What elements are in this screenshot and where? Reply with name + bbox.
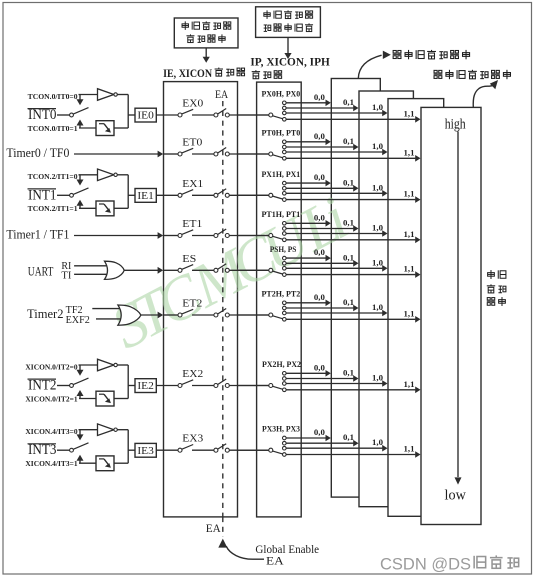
svg-text:TCON.2/IT1=0: TCON.2/IT1=0 bbox=[28, 172, 78, 181]
svg-text:low: low bbox=[445, 488, 466, 504]
svg-text:ES: ES bbox=[182, 254, 196, 265]
svg-text:PX1H, PX1: PX1H, PX1 bbox=[262, 170, 301, 179]
svg-text:EA: EA bbox=[266, 556, 284, 568]
svg-text:PX2H, PX2: PX2H, PX2 bbox=[262, 360, 301, 369]
svg-text:INT0: INT0 bbox=[28, 107, 57, 123]
svg-text:Global Enable: Global Enable bbox=[255, 544, 319, 556]
svg-text:EX3: EX3 bbox=[182, 434, 203, 445]
svg-text:0,0: 0,0 bbox=[314, 132, 325, 141]
svg-text:1,0: 1,0 bbox=[372, 303, 383, 312]
svg-text:CSDN @DS: CSDN @DS bbox=[380, 555, 471, 573]
svg-text:IP, XICON, IPH: IP, XICON, IPH bbox=[250, 57, 329, 69]
svg-text:PT2H, PT2: PT2H, PT2 bbox=[262, 290, 301, 299]
svg-text:EA: EA bbox=[215, 89, 229, 101]
svg-text:1,1: 1,1 bbox=[404, 445, 415, 454]
svg-text:TCON.0/IT0=1: TCON.0/IT0=1 bbox=[28, 124, 78, 133]
svg-text:ET0: ET0 bbox=[182, 138, 202, 149]
svg-text:1,0: 1,0 bbox=[372, 103, 383, 112]
svg-text:0,1: 0,1 bbox=[343, 137, 354, 146]
svg-text:IE2: IE2 bbox=[137, 381, 154, 392]
svg-text:0,1: 0,1 bbox=[343, 253, 354, 262]
svg-text:0,0: 0,0 bbox=[314, 213, 325, 222]
svg-text:1,0: 1,0 bbox=[372, 183, 383, 192]
svg-text:Timer1 / TF1: Timer1 / TF1 bbox=[6, 228, 69, 242]
svg-text:Timer0 / TF0: Timer0 / TF0 bbox=[6, 146, 69, 160]
svg-text:1,1: 1,1 bbox=[404, 148, 415, 157]
svg-text:0,1: 0,1 bbox=[343, 98, 354, 107]
svg-text:Timer2: Timer2 bbox=[27, 307, 64, 321]
svg-text:0,0: 0,0 bbox=[314, 428, 325, 437]
svg-text:EX0: EX0 bbox=[182, 99, 203, 110]
svg-text:TCON.2/IT1=1: TCON.2/IT1=1 bbox=[28, 204, 78, 213]
svg-text:0,0: 0,0 bbox=[314, 293, 325, 302]
svg-text:1,0: 1,0 bbox=[372, 224, 383, 233]
svg-text:XICON.4/IT3=1: XICON.4/IT3=1 bbox=[25, 459, 77, 468]
svg-text:ET1: ET1 bbox=[182, 219, 202, 230]
svg-text:TI: TI bbox=[61, 270, 71, 281]
svg-text:1,1: 1,1 bbox=[404, 309, 415, 318]
svg-text:XICON.0/IT2=0: XICON.0/IT2=0 bbox=[25, 362, 77, 371]
svg-text:high: high bbox=[445, 116, 466, 132]
svg-text:IE0: IE0 bbox=[137, 111, 154, 122]
svg-text:1,0: 1,0 bbox=[372, 438, 383, 447]
svg-text:1,1: 1,1 bbox=[404, 190, 415, 199]
svg-text:1,1: 1,1 bbox=[404, 230, 415, 239]
svg-text:ET2: ET2 bbox=[182, 299, 202, 310]
svg-text:INT1: INT1 bbox=[28, 187, 57, 203]
svg-text:EA: EA bbox=[206, 523, 222, 535]
svg-text:UART: UART bbox=[28, 265, 54, 279]
svg-text:IE, XICON: IE, XICON bbox=[163, 68, 213, 80]
svg-text:0,0: 0,0 bbox=[314, 248, 325, 257]
svg-text:0,1: 0,1 bbox=[343, 433, 354, 442]
svg-text:PT1H, PT1: PT1H, PT1 bbox=[262, 210, 301, 219]
svg-text:1,0: 1,0 bbox=[372, 142, 383, 151]
svg-text:TCON.0/IT0=0: TCON.0/IT0=0 bbox=[28, 92, 78, 101]
svg-text:PX3H, PX3: PX3H, PX3 bbox=[262, 425, 300, 434]
svg-text:1,1: 1,1 bbox=[404, 265, 415, 274]
svg-text:0,1: 0,1 bbox=[343, 178, 354, 187]
svg-text:0,0: 0,0 bbox=[314, 363, 325, 372]
svg-text:1,1: 1,1 bbox=[404, 109, 415, 118]
svg-text:INT3: INT3 bbox=[28, 442, 57, 458]
svg-text:PSH, PS: PSH, PS bbox=[270, 245, 297, 254]
svg-text:EXF2: EXF2 bbox=[66, 315, 90, 326]
svg-text:XICON.0/IT2=1: XICON.0/IT2=1 bbox=[25, 394, 77, 403]
svg-text:IE3: IE3 bbox=[137, 446, 154, 457]
svg-text:PT0H, PT0: PT0H, PT0 bbox=[262, 129, 301, 138]
svg-text:0,0: 0,0 bbox=[314, 93, 325, 102]
svg-text:EX2: EX2 bbox=[182, 369, 203, 380]
svg-text:0,0: 0,0 bbox=[314, 173, 325, 182]
svg-text:1,1: 1,1 bbox=[404, 380, 415, 389]
svg-text:EX1: EX1 bbox=[182, 179, 203, 190]
svg-text:1,0: 1,0 bbox=[372, 374, 383, 383]
svg-text:0,1: 0,1 bbox=[343, 298, 354, 307]
svg-text:0,1: 0,1 bbox=[343, 219, 354, 228]
svg-text:PX0H, PX0: PX0H, PX0 bbox=[262, 90, 301, 99]
svg-text:IE1: IE1 bbox=[137, 191, 154, 202]
svg-text:INT2: INT2 bbox=[28, 378, 57, 394]
svg-text:1,0: 1,0 bbox=[372, 258, 383, 267]
svg-text:0,1: 0,1 bbox=[343, 369, 354, 378]
svg-text:XICON.4/IT3=0: XICON.4/IT3=0 bbox=[25, 427, 77, 436]
